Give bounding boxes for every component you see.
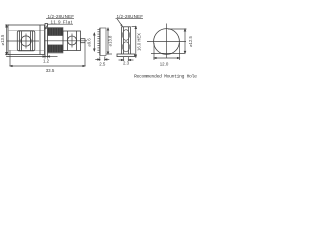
hole circle left [21,36,31,46]
rear block right divider [76,31,78,51]
plate inner bottom line [8,49,45,51]
washer bar outline [100,28,106,56]
rear hole circle [68,36,77,45]
inner block right divider a [29,31,31,50]
svg-text:1/2-28UNEF: 1/2-28UNEF [48,14,75,19]
washer bar left edge [99,28,101,56]
washer dim bottom [95,57,109,62]
washer bar serrations [97,30,99,53]
svg-text:12.0: 12.0 [160,62,169,67]
width dim line [154,57,180,58]
dim 1.2 lines [6,55,57,59]
svg-text:1/2-28UNEF: 1/2-28UNEF [117,14,144,19]
connector body plate outline [8,25,45,55]
dia ext top [168,28,187,30]
vertical connector label leader [116,19,144,27]
dia dim line [184,29,186,53]
svg-text:1.2: 1.2 [43,59,50,64]
flange disc [45,24,48,57]
svg-text:⌀13.5: ⌀13.5 [0,34,5,45]
svg-text:16.0 HEX: 16.0 HEX [137,33,142,51]
dim 33.5 lines [10,43,85,67]
thread band texture [50,28,60,53]
inner block right divider b [31,31,33,51]
vertical connector upper lens [123,30,130,41]
svg-text:⌀12.5: ⌀12.5 [188,35,193,46]
washer dim right [106,28,112,54]
thread band bottom [48,45,63,53]
svg-text:33.5: 33.5 [46,68,55,73]
vertical connector outer wall right [129,27,131,54]
plate inner right divider [39,25,41,55]
rear hole cross vertical [71,34,73,48]
washer dim left [94,33,96,51]
mounting hole vertical centerline [166,24,168,59]
mounting hole circle [154,29,180,55]
thread block [48,28,64,54]
vertical connector inner wall right [128,27,130,54]
axis centerline right [45,40,87,42]
rear block left divider [67,31,69,51]
mounting hole flat [151,52,185,54]
svg-text:⌀13.8: ⌀13.8 [108,35,113,46]
mounting hole horizontal centerline [147,41,186,43]
svg-text:11.9 Flat: 11.9 Flat [51,19,73,24]
hole cross vertical [25,34,27,49]
axis centerline left [7,40,39,42]
inner block left divider b [21,31,23,50]
vertical connector inner wall left [122,27,124,54]
vertical connector base [117,54,135,57]
vertical connector outer wall left [121,27,123,54]
svg-text:⌀9.6: ⌀9.6 [86,38,91,47]
width ext left [153,43,155,60]
vertical connector lower lens [123,42,130,52]
vertical connector top [121,26,130,28]
label leader left [45,19,74,30]
width ext right [179,43,181,60]
svg-text:2.5: 2.5 [99,62,106,67]
svg-text:2.3: 2.3 [123,61,130,66]
pin [81,39,86,43]
inner block left divider a [19,31,21,51]
vertical connector height dim [132,27,137,58]
dim diameter 13.5 line [5,25,9,55]
base dim 2.3 [119,57,134,61]
thread band top [48,28,63,36]
inner block [17,31,35,51]
svg-text:Recommended Mounting Hole: Recommended Mounting Hole [134,73,197,79]
rear block [63,31,81,51]
plate inner top line [8,29,45,31]
